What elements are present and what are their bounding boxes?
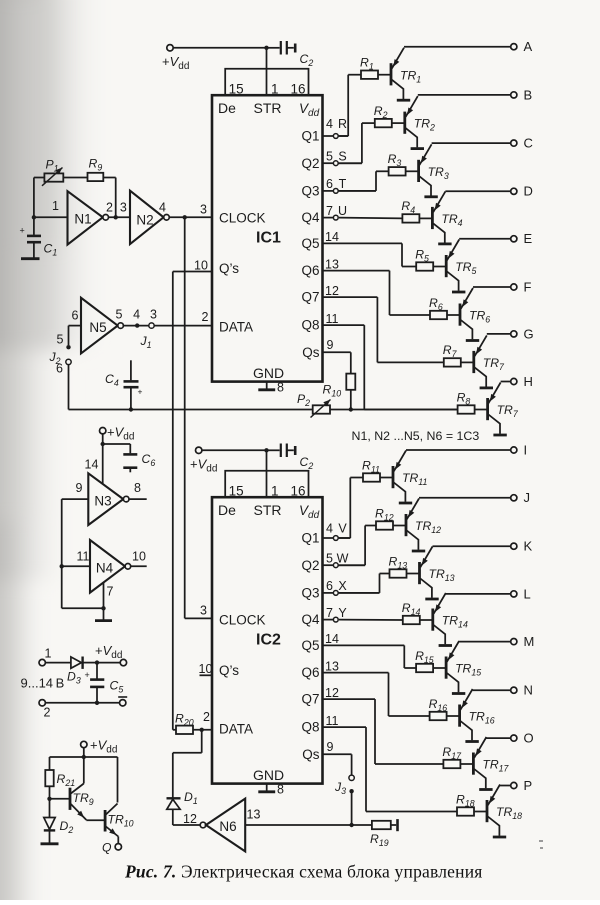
ground bar at TR15 <box>452 692 465 695</box>
svg-text:Q6: Q6 <box>301 665 319 680</box>
transistor TR9 <box>50 757 94 820</box>
wire Q pin to R3 <box>339 171 389 191</box>
svg-text:CLOCK: CLOCK <box>219 613 266 628</box>
terminal A <box>511 39 533 54</box>
wire collector of TR13 to terminal K <box>433 545 511 547</box>
resistor R15 <box>415 649 434 672</box>
svg-text:9: 9 <box>76 481 83 495</box>
svg-text:5: 5 <box>326 149 333 163</box>
svg-text:8: 8 <box>277 381 284 395</box>
transistor TR16 <box>460 689 495 740</box>
terminal K <box>511 539 533 554</box>
wire collector of TR16 to terminal N <box>473 689 511 691</box>
transistor TR14 <box>433 593 468 644</box>
svg-text:4: 4 <box>133 307 140 321</box>
svg-text:9: 9 <box>327 740 334 754</box>
svg-text:13: 13 <box>325 257 339 271</box>
IC1 pin Qs stub (9) <box>323 338 351 374</box>
wire collector of TR15 to terminal M <box>459 641 511 643</box>
terminal +Vdd output <box>120 659 126 665</box>
svg-text:IC2: IC2 <box>256 632 281 649</box>
svg-text:N1: N1 <box>74 212 91 227</box>
wire Q pin to R7 <box>323 297 444 362</box>
svg-text:4: 4 <box>326 522 333 536</box>
svg-text:N6: N6 <box>219 819 236 834</box>
svg-text:Q7: Q7 <box>301 290 319 305</box>
terminal 1 (input +) <box>39 647 71 666</box>
wire R15 to base of TR15 <box>433 667 446 669</box>
wire N6 input line to J3 and R19 <box>245 823 372 827</box>
diode D1 <box>167 790 198 826</box>
ground bar at TR12 <box>412 550 425 553</box>
ground bar at TR7 <box>480 386 493 389</box>
ground bar at TR11 <box>399 502 412 505</box>
IC1 pin Q6 stub (13) <box>325 257 339 271</box>
capacitor C1 <box>20 226 58 258</box>
wire R7 to base of TR7 <box>461 361 474 363</box>
svg-text:7: 7 <box>326 606 333 620</box>
IC IC2 output pin labels Q1-Qs <box>301 531 320 762</box>
inverter N2 <box>130 191 169 244</box>
svg-text:3: 3 <box>150 307 157 321</box>
IC2 pin Q6 stub (13) <box>325 659 339 673</box>
wire Q pin to R16 <box>323 673 430 716</box>
jumper J2 <box>49 326 72 410</box>
terminal F <box>511 279 532 294</box>
IC2 pin Q5 stub (14) <box>325 632 339 646</box>
ground bar at TR14 <box>439 644 452 647</box>
wire R14 to base of TR14 <box>420 619 433 621</box>
svg-text:8: 8 <box>277 783 284 797</box>
IC1 pin Q5 stub (14) <box>325 230 339 244</box>
transistor TR7 <box>474 335 505 386</box>
wire +Vdd rail <box>50 757 118 803</box>
label 9...14 V <box>21 676 65 691</box>
ground bar at TR18 <box>493 836 506 839</box>
svg-text:N5: N5 <box>89 320 106 335</box>
svg-text:Q4: Q4 <box>301 210 320 225</box>
svg-text:1: 1 <box>271 483 279 498</box>
terminal O <box>511 731 534 746</box>
IC2 pin 10 stub <box>199 662 213 676</box>
svg-text:2: 2 <box>203 710 210 724</box>
svg-text:2: 2 <box>44 706 51 720</box>
IC IC2 top pins 15 / 1 / 16 with +Vdd bracket <box>225 450 308 499</box>
svg-text:STR: STR <box>254 502 282 518</box>
svg-text:1: 1 <box>271 81 279 96</box>
ground bar at TR2 <box>411 147 424 150</box>
wire Q pin to R12 <box>339 526 376 566</box>
svg-text:GND: GND <box>253 365 284 381</box>
wire Q pin to R18 <box>323 727 458 811</box>
terminal P <box>511 778 532 793</box>
svg-text:STR: STR <box>254 100 282 116</box>
svg-text:9: 9 <box>327 338 334 352</box>
+Vdd terminal for N3/N4 <box>85 425 135 485</box>
transistor TR10 <box>86 804 133 844</box>
svg-text:11: 11 <box>326 312 339 326</box>
svg-text:Q8: Q8 <box>301 318 319 333</box>
wire R18 to base of TR18 <box>474 811 487 813</box>
wire R5 to base of TR5 <box>433 266 446 268</box>
ground bar at TR5 <box>452 291 465 294</box>
svg-text:Q8: Q8 <box>301 720 319 735</box>
wire Q pin to R6 <box>323 271 431 315</box>
svg-text:DATA: DATA <box>219 320 253 335</box>
node pins 2/3 between N1 and N2 <box>106 201 130 218</box>
svg-text:M: M <box>524 634 535 649</box>
resistor R2 <box>374 104 392 127</box>
svg-text:De: De <box>218 502 236 518</box>
transistor TR7 <box>488 383 519 434</box>
svg-text:11: 11 <box>326 714 339 728</box>
wire collector of TR12 to terminal J <box>419 497 511 499</box>
resistor R21 <box>45 770 75 801</box>
svg-text:De: De <box>218 100 236 116</box>
terminal L <box>511 586 531 601</box>
svg-text:9...14 В: 9...14 В <box>21 676 65 691</box>
svg-text:16: 16 <box>290 483 305 498</box>
wire Q pin to R8 <box>323 325 458 409</box>
wire N3/N4 inputs tied and grounded at pin 7 <box>60 499 114 619</box>
svg-text:5: 5 <box>57 333 64 347</box>
inverter N4 <box>62 540 147 593</box>
wire R2 to base of TR2 <box>392 122 405 124</box>
svg-text:2: 2 <box>106 201 113 215</box>
wire collector of TR2 to terminal B <box>418 94 511 96</box>
svg-text:13: 13 <box>247 807 261 821</box>
capacitor C5 <box>85 663 124 703</box>
svg-text:L: L <box>524 586 531 601</box>
resistor R12 <box>375 506 394 529</box>
svg-text:C: C <box>524 136 533 151</box>
note: N1..N6 = 1C3 <box>352 429 480 443</box>
ground bar at TR7 <box>493 434 506 437</box>
inverter N5 <box>69 298 124 354</box>
svg-text:4: 4 <box>326 117 333 131</box>
inverter N3 <box>62 473 147 525</box>
svg-text:Q1: Q1 <box>301 531 319 546</box>
svg-text:15: 15 <box>229 483 244 498</box>
svg-text:Q5: Q5 <box>301 638 319 653</box>
svg-text:W: W <box>337 551 349 565</box>
svg-text:6: 6 <box>72 308 79 322</box>
transistor TR3 <box>419 144 449 195</box>
wire collector of TR7 to terminal G <box>487 333 511 335</box>
wire Q pin to R13 <box>339 574 390 593</box>
IC IC1 top pins 15 / 1 / 16 with +Vdd bracket <box>225 48 308 97</box>
wire Q pin to R11 <box>339 478 363 539</box>
svg-text:+: + <box>20 226 25 236</box>
resistor R14 <box>402 601 421 624</box>
terminal M <box>511 634 535 649</box>
wire R3 to base of TR3 <box>406 170 419 172</box>
capacitor C6 <box>103 444 156 472</box>
svg-text:Q’s: Q’s <box>219 261 239 276</box>
svg-text:7: 7 <box>326 204 333 218</box>
IC IC1 body <box>212 95 323 381</box>
wire Q pin to R5 <box>323 243 417 266</box>
svg-text:Q5: Q5 <box>301 236 319 251</box>
ground bar at TR17 <box>479 788 492 791</box>
wire Q-prime chain IC1 pin 10 down to R20 <box>173 258 212 730</box>
resistor R11 <box>362 458 380 481</box>
IC2 pin Q7 stub (12) <box>325 686 339 700</box>
svg-text:S: S <box>338 149 346 163</box>
svg-text:12: 12 <box>325 686 339 700</box>
svg-text:16: 16 <box>290 81 305 96</box>
resistor R8 <box>457 390 475 413</box>
terminal Q <box>102 841 122 855</box>
IC2 pin Q8 stub (11) <box>326 714 339 728</box>
svg-text:12: 12 <box>183 812 197 826</box>
svg-text:K: K <box>524 539 533 554</box>
potentiometer P2 <box>297 392 331 418</box>
transistor TR15 <box>446 641 481 692</box>
wire R1 to base of TR1 <box>378 74 391 76</box>
svg-text:3: 3 <box>200 203 207 217</box>
IC1 pin Q7 stub (12) <box>325 284 339 298</box>
svg-text:N: N <box>524 683 533 698</box>
svg-text:N3: N3 <box>94 494 111 509</box>
wire P2 to R10 bottom and TR8 base line <box>330 407 458 411</box>
IC2 pin Q1 stub (4 V) <box>323 522 351 541</box>
resistor R6 <box>429 296 447 319</box>
inverter N1 <box>34 191 109 244</box>
wire collector of TR4 to terminal D <box>445 190 510 192</box>
terminal E <box>511 231 533 246</box>
wire R17 to base of TR17 <box>460 763 473 765</box>
svg-text:1: 1 <box>52 199 59 213</box>
svg-text:I: I <box>524 442 528 457</box>
diode D3 <box>67 657 97 686</box>
wire Q pin to R15 <box>323 645 417 668</box>
inverter N6 (points left) <box>173 799 261 852</box>
caption <box>124 862 483 882</box>
terminal J <box>511 490 530 505</box>
IC2 pin Q4 stub (7 Y) <box>323 606 348 622</box>
terminal H <box>511 374 533 389</box>
resistor R18 <box>456 792 475 815</box>
terminal I <box>511 442 527 457</box>
transistor TR18 <box>487 785 522 836</box>
svg-text:E: E <box>524 231 533 246</box>
wire N2 output to IC1 CLOCK, node junction <box>169 203 212 220</box>
wire collector of TR1 to terminal A <box>404 46 511 48</box>
svg-text:10: 10 <box>194 258 208 272</box>
wire collector of TR6 to terminal F <box>473 286 511 288</box>
wire collector of TR5 to terminal E <box>459 238 510 240</box>
resistor R10 <box>323 374 356 410</box>
ground bar at TR1 <box>397 99 410 102</box>
svg-text:+: + <box>85 670 90 680</box>
resistor R4 <box>401 199 419 222</box>
svg-text:Q2: Q2 <box>301 558 319 573</box>
ground bar at TR13 <box>425 598 438 601</box>
wire Q pin to R4 <box>339 217 402 220</box>
IC IC1 ground pin 8 <box>258 381 284 395</box>
terminal D <box>511 184 533 199</box>
resistor R17 <box>442 745 462 768</box>
wire Q pin to R2 <box>339 123 375 163</box>
wire R6 to base of TR6 <box>447 314 460 316</box>
svg-text:1: 1 <box>45 647 52 661</box>
svg-text:J: J <box>524 490 531 505</box>
terminal G <box>511 326 534 341</box>
+Vdd terminal for IC2 <box>190 447 269 474</box>
wire to +Vdd terminal <box>95 643 123 665</box>
IC1 pin Q8 stub (11) <box>326 312 339 326</box>
terminal 0V with overbar <box>118 697 127 706</box>
svg-text:Y: Y <box>338 606 347 620</box>
svg-text:Q3: Q3 <box>301 586 319 601</box>
resistor R3 <box>388 152 406 175</box>
transistor TR17 <box>473 737 509 788</box>
svg-text:U: U <box>338 204 347 218</box>
svg-text:G: G <box>524 326 534 341</box>
svg-text:Q4: Q4 <box>301 612 320 627</box>
wire R4 to base of TR4 <box>419 217 432 219</box>
IC1 pin Q4 stub (7 U) <box>323 204 348 220</box>
IC IC1 output pin labels Q1-Qs <box>301 129 320 360</box>
resistor R20 <box>173 710 212 734</box>
transistor TR1 <box>391 48 421 99</box>
svg-text:14: 14 <box>85 458 99 472</box>
wire Q pin to R1 <box>339 75 361 136</box>
svg-text:P: P <box>524 778 533 793</box>
jumper J1 <box>123 307 212 350</box>
svg-text:O: O <box>524 731 534 746</box>
ground bar at TR6 <box>466 339 479 342</box>
resistor R16 <box>429 697 448 720</box>
svg-text:Qs: Qs <box>302 747 320 762</box>
svg-text:Qs: Qs <box>302 345 320 360</box>
wire clock chain down to IC2 <box>185 217 212 618</box>
ground at C1 <box>21 257 40 260</box>
terminal C <box>511 136 533 151</box>
transistor TR6 <box>460 288 490 339</box>
ground bar at TR16 <box>465 740 478 743</box>
ground at N4 pin 7 <box>95 619 112 622</box>
wire R8 to base of TR7 <box>475 409 488 411</box>
wire R13 to base of TR13 <box>407 573 420 575</box>
scan specks <box>539 840 543 849</box>
svg-text:6: 6 <box>56 362 63 376</box>
transistor TR11 <box>393 451 427 502</box>
ground bar at TR3 <box>424 195 437 198</box>
potentiometer P1 <box>42 158 63 186</box>
svg-text:14: 14 <box>325 230 339 244</box>
svg-text:7: 7 <box>107 585 114 599</box>
IC2 pin Qs stub (9) and jumper J3 <box>323 740 355 825</box>
svg-text:5: 5 <box>116 307 123 321</box>
IC1 pin Q2 stub (5 S) <box>323 149 362 165</box>
IC1 pin Q3 stub (6 T) <box>323 177 377 193</box>
svg-text:T: T <box>339 177 347 191</box>
svg-text:N2: N2 <box>136 213 153 228</box>
wire R16 to base of TR16 <box>447 715 460 717</box>
svg-text:12: 12 <box>325 284 339 298</box>
terminal B <box>511 87 532 102</box>
transistor TR5 <box>446 240 476 291</box>
terminal 2 (input -) <box>39 700 120 720</box>
IC IC2 body <box>212 497 323 783</box>
svg-text:Рис. 7. Электрическая схема бл: Рис. 7. Электрическая схема блока управл… <box>124 862 483 882</box>
svg-text:+: + <box>138 387 143 397</box>
wire collector of TR18 to terminal P <box>500 785 511 787</box>
ground bar at TR4 <box>438 242 451 245</box>
svg-text:Q3: Q3 <box>301 184 319 199</box>
capacitor C2 (IC2) <box>267 444 314 472</box>
svg-text:4: 4 <box>159 201 166 215</box>
svg-text:Q: Q <box>102 841 112 855</box>
svg-text:CLOCK: CLOCK <box>219 211 266 226</box>
terminal N <box>511 683 533 698</box>
svg-text:Q1: Q1 <box>301 129 319 144</box>
svg-text:8: 8 <box>134 481 141 495</box>
+Vdd terminal for TR9/TR10 <box>81 738 118 760</box>
diode D2 <box>44 799 74 843</box>
resistor R7 <box>443 343 461 366</box>
wire R12 to base of TR12 <box>393 525 406 527</box>
wire oscillator feedback net <box>32 178 118 235</box>
svg-text:DATA: DATA <box>219 722 253 737</box>
transistor TR13 <box>420 547 455 598</box>
capacitor C2 (IC1) <box>267 41 314 68</box>
wire Q pin to R17 <box>323 699 444 764</box>
wire DATA junction down to D1 <box>173 730 202 798</box>
resistor R13 <box>389 554 408 577</box>
resistor R5 <box>415 247 433 270</box>
svg-text:GND: GND <box>253 767 284 783</box>
wire Q pin to R14 <box>339 619 403 621</box>
resistor R19 <box>370 819 398 848</box>
svg-text:Q2: Q2 <box>301 156 319 171</box>
svg-text:H: H <box>524 374 533 389</box>
svg-text:11: 11 <box>77 550 90 564</box>
resistor R9 <box>88 157 104 182</box>
svg-text:IC1: IC1 <box>256 230 281 247</box>
svg-text:6: 6 <box>326 177 333 191</box>
wire collector of TR3 to terminal C <box>432 142 511 144</box>
svg-text:V: V <box>338 522 347 536</box>
wire bottom net J2/C4 to P2 <box>69 407 313 411</box>
+Vdd terminal for IC1 <box>162 45 269 72</box>
capacitor C4 <box>105 360 143 409</box>
svg-text:3: 3 <box>200 604 207 618</box>
transistor TR2 <box>405 96 435 147</box>
svg-text:D: D <box>524 184 533 199</box>
svg-text:10: 10 <box>132 550 146 564</box>
resistor R1 <box>360 56 378 79</box>
wire collector of TR7 to terminal H <box>501 381 511 383</box>
svg-text:A: A <box>524 39 533 54</box>
svg-text:F: F <box>524 279 532 294</box>
svg-text:14: 14 <box>325 632 339 646</box>
svg-text:N1, N2 ...N5, N6 = 1C3: N1, N2 ...N5, N6 = 1C3 <box>352 429 480 443</box>
wire R11 to base of TR11 <box>380 477 393 479</box>
svg-text:Q7: Q7 <box>301 692 319 707</box>
svg-text:Q6: Q6 <box>301 263 319 278</box>
svg-text:2: 2 <box>202 310 209 324</box>
svg-text:15: 15 <box>229 81 244 96</box>
IC2 pin Q3 stub (6 X) <box>323 579 380 595</box>
svg-text:Q’s: Q’s <box>219 663 239 678</box>
svg-text:X: X <box>338 579 347 593</box>
svg-text:13: 13 <box>325 659 339 673</box>
transistor TR12 <box>406 499 441 550</box>
ground at D2 <box>41 842 59 845</box>
